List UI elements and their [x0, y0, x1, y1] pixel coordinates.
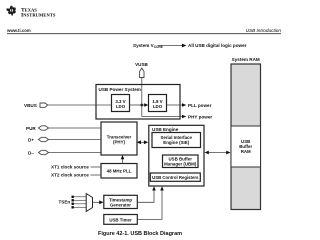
svg-text:PLL power: PLL power — [188, 103, 212, 108]
svg-text:D+: D+ — [28, 137, 34, 142]
svg-text:System RAM: System RAM — [232, 57, 260, 62]
svg-text:USB Timer: USB Timer — [109, 217, 132, 222]
svg-text:LDO: LDO — [116, 104, 126, 109]
svg-text:USB Engine: USB Engine — [152, 127, 179, 132]
svg-text:XT1 clock source: XT1 clock source — [51, 165, 89, 170]
svg-text:Generator: Generator — [110, 202, 131, 207]
svg-text:Manager (UBM): Manager (UBM) — [164, 161, 197, 166]
svg-text:USB Control Registers: USB Control Registers — [152, 175, 199, 180]
svg-text:INSTRUMENTS: INSTRUMENTS — [21, 12, 56, 18]
svg-text:VBUS: VBUS — [24, 103, 37, 108]
svg-text:TSEn: TSEn — [59, 200, 71, 205]
svg-text:XT2 clock source: XT2 clock source — [51, 173, 89, 178]
svg-text:PHY power: PHY power — [188, 114, 212, 119]
svg-text:D–: D– — [28, 150, 34, 155]
svg-text:(PHY): (PHY) — [113, 140, 125, 145]
svg-text:USB Power System: USB Power System — [99, 87, 141, 92]
svg-text:System VCORE: System VCORE — [133, 43, 163, 49]
svg-text:48 MHz PLL: 48 MHz PLL — [107, 169, 132, 174]
svg-text:USB Introduction: USB Introduction — [246, 28, 282, 33]
svg-text:LDO: LDO — [153, 104, 163, 109]
svg-text:RAM: RAM — [241, 149, 251, 154]
svg-text:VUSB: VUSB — [135, 62, 148, 67]
svg-text:www.ti.com: www.ti.com — [6, 28, 31, 33]
svg-text:All USB digital logic power: All USB digital logic power — [188, 43, 247, 48]
svg-text:PUR: PUR — [26, 126, 36, 131]
svg-text:Figure 42-1. USB Block Diagram: Figure 42-1. USB Block Diagram — [98, 231, 182, 237]
svg-text:Engine (SIE): Engine (SIE) — [163, 140, 189, 145]
